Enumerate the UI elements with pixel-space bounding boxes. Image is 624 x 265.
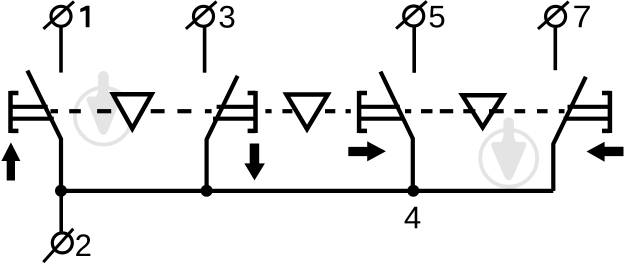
actuation arrow left at S4 (587, 142, 624, 162)
terminal 3 lead wire (203, 28, 207, 73)
dashed actuator link segment T2 to S3 (325, 109, 335, 113)
switch S3 fixed fork contact bracket (359, 91, 367, 133)
node label 4 (405, 207, 421, 228)
dashed actuator link segment T3 to S4 (515, 109, 526, 113)
dashed actuator link segment T1 to S2 (151, 109, 165, 113)
terminal 7 lead wire (553, 27, 557, 70)
actuator symbol triangle T2 (286, 95, 327, 130)
terminal 1 circle (43, 2, 74, 29)
terminal 1 lead wire (59, 28, 63, 73)
switch S2 movable blade and pivot wire (207, 76, 238, 191)
pin label 2 (76, 234, 90, 256)
dashed actuator link segment S2 to T2 (265, 109, 271, 113)
junction dot node 4 (407, 185, 419, 197)
terminal 2 circle (43, 229, 73, 262)
terminal 2 lead wire (59, 191, 63, 233)
switch S2 fork bar upper (217, 105, 256, 109)
terminal 7 circle (538, 2, 569, 29)
actuation arrow right at S3 (348, 141, 386, 161)
switch S1 fork bar upper (11, 105, 48, 109)
pin label 7 (574, 6, 590, 27)
switch S1 movable blade and pivot wire (27, 71, 61, 191)
switch S4 fork bar lower (564, 117, 610, 121)
switch S4 fork bar upper (568, 105, 610, 109)
pin label 1 (80, 6, 89, 27)
terminal 5 circle (396, 1, 427, 28)
junction dot node at terminal 2 column (55, 185, 67, 197)
switch S3 movable blade and pivot wire (381, 72, 413, 191)
terminal 5 lead wire (412, 27, 416, 73)
actuation arrow up at S1 (1, 142, 20, 180)
actuator symbol triangle T1 (113, 94, 152, 128)
switch S4 fixed fork contact bracket (602, 91, 610, 133)
switch S2 fork bar lower (213, 117, 256, 121)
switch S3 fork bar lower (359, 117, 404, 121)
dashed actuator link segment S3 to T3 (405, 109, 411, 113)
pin label 3 (220, 6, 235, 28)
dashed actuator link inside T3 (489, 109, 504, 113)
switch S1 fixed fork contact bracket (11, 91, 19, 133)
bottom bus wire node 2-4 (61, 189, 553, 193)
actuator symbol triangle T3 (462, 95, 503, 127)
switch S3 fork bar upper (359, 105, 400, 109)
pin label 5 (430, 6, 445, 28)
watermark logo right (480, 117, 537, 186)
terminal 3 circle (186, 2, 217, 29)
switch S1 fork bar lower (11, 117, 54, 121)
switch S4 movable blade and pivot wire (553, 77, 586, 191)
junction dot node at S2 pivot (201, 185, 213, 197)
actuation arrow down at S2 (244, 144, 265, 181)
watermark logo left (75, 71, 132, 145)
dashed actuator link segment S1 to T1 (51, 109, 565, 113)
switch S2 fixed fork contact bracket (248, 91, 256, 133)
